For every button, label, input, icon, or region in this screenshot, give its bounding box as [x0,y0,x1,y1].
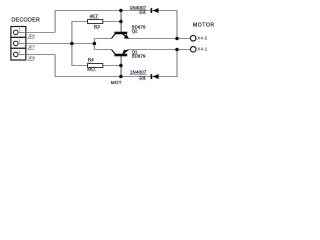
wire: Q2 collector wire [94,38,112,40]
svg-text:X4-2: X4-2 [197,36,207,41]
emitter arrow [124,34,129,38]
emitter slant [123,50,129,54]
triangle [153,74,159,79]
svg-text:R3: R3 [94,24,100,29]
resistor R3 body [88,20,103,24]
svg-text:JP8: JP8 [28,56,36,61]
wire: collector riser at x=94.2 [93,39,95,50]
node: junction dot bottom rail / MOT [119,75,123,79]
base bar [114,32,127,35]
wire: R3/R4 feeder vertical at x=71.7 [71,22,73,66]
node: junction dot JP7 wire end / collector riser [93,42,97,46]
base bar [114,54,127,57]
triangle [153,8,159,13]
svg-text:4K7: 4K7 [90,13,99,18]
wire: JP6 pin wire [26,32,55,34]
wire: JP8 riser vertical [54,55,56,77]
node: junction dot X4-2 [175,37,179,41]
svg-text:JP6: JP6 [28,34,36,39]
svg-text:MOTOR: MOTOR [193,23,215,29]
svg-text:MOT: MOT [111,80,122,85]
collector slant [112,50,116,55]
svg-text:1: 1 [19,39,21,43]
wire: right riser X4-2 (top) [176,11,178,39]
wire: right riser X4-1 (bottom) [176,50,178,77]
cathode bar [151,8,153,13]
wire: JP7 pin wire [26,43,94,45]
emitter slant [123,34,129,38]
wire: top rail from JP6 riser to right riser [55,10,178,12]
connector JP8 box [11,48,26,60]
wire: R3 left lead [71,21,87,23]
emitter arrow [122,50,127,54]
wire: bottom rail [55,76,178,78]
wire: Q2 emitter wire to X4-2 [128,38,190,40]
svg-text:1: 1 [19,28,21,32]
resistor R4 body [88,64,103,68]
diode D3 (1N4007) [151,8,159,13]
svg-text:DECODER: DECODER [11,17,40,23]
node: junction dot X4-1 [175,48,179,52]
node: junction dot top rail / Q2 base [119,9,123,13]
transistor Q1 (BD679) [112,50,129,57]
svg-text:D4: D4 [140,75,146,80]
wire: JP8 pin wire [26,54,55,56]
transistor Q2 (BD679) [112,32,129,39]
node: junction dot R4 right lead [119,64,123,68]
cathode bar [151,74,153,79]
node: junction dot R3 right lead [119,20,123,24]
wire: Q1 collector wire [94,49,112,51]
terminal X4-1 [190,47,196,53]
svg-text:1N4007: 1N4007 [130,70,147,75]
svg-text:BD679: BD679 [132,53,146,58]
connector JP7 box [11,37,26,48]
svg-text:R4: R4 [88,57,94,62]
node: junction dot JP7 feeder [70,42,74,46]
diode D4 (1N4007) [151,74,159,79]
wire: R3 right lead [103,21,121,23]
terminal X4-2 [190,35,196,41]
svg-text:Q2: Q2 [132,28,138,33]
collector slant [112,34,116,39]
wire: JP6 riser vertical [54,11,56,33]
svg-text:JP7: JP7 [28,45,36,50]
svg-text:X4-1: X4-1 [197,47,207,52]
wire: R4 left lead [71,65,87,67]
svg-text:1: 1 [19,50,21,54]
wire: R4 right lead [103,65,121,67]
wire: Q1 emitter wire to X4-1 [128,49,190,51]
wire: Q2 base vertical [120,11,122,33]
wire: Q1 base vertical [120,56,122,77]
svg-text:4K7: 4K7 [87,66,96,71]
connector JP6 box [11,27,26,38]
